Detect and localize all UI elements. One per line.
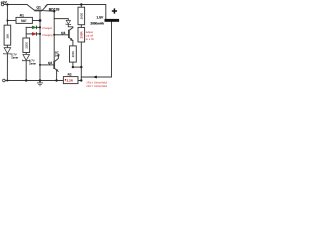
svg-text:1000: 1000 <box>71 51 75 58</box>
svg-text:56E: 56E <box>21 19 27 23</box>
svg-text:R1: R1 <box>20 13 24 17</box>
svg-text:547: 547 <box>55 53 60 57</box>
svg-text:Zener: Zener <box>29 62 36 65</box>
svg-text:Q1: Q1 <box>36 5 41 9</box>
svg-text:300R: 300R <box>80 31 84 39</box>
svg-text:Charging: Charging <box>42 34 53 37</box>
svg-text:R2: R2 <box>68 73 72 77</box>
svg-text:to 1.0V: to 1.0V <box>86 38 94 41</box>
svg-text:1.5V: 1.5V <box>96 16 104 20</box>
svg-text:Charged: Charged <box>42 27 52 30</box>
svg-text:2000mAh: 2000mAh <box>90 22 104 26</box>
svg-text:220E: 220E <box>24 42 28 49</box>
svg-text:36K: 36K <box>5 33 9 38</box>
svg-text:2.2R: 2.2R <box>67 79 74 83</box>
svg-text:Q3: Q3 <box>61 31 65 35</box>
svg-text:2R2 = 100mA Mk3: 2R2 = 100mA Mk3 <box>86 85 107 88</box>
svg-text:+5V: +5V <box>0 0 7 4</box>
svg-text:100E: 100E <box>80 13 84 20</box>
svg-text:BD139: BD139 <box>49 8 60 12</box>
svg-text:Q2: Q2 <box>48 61 52 65</box>
svg-text:Zener: Zener <box>11 56 18 59</box>
